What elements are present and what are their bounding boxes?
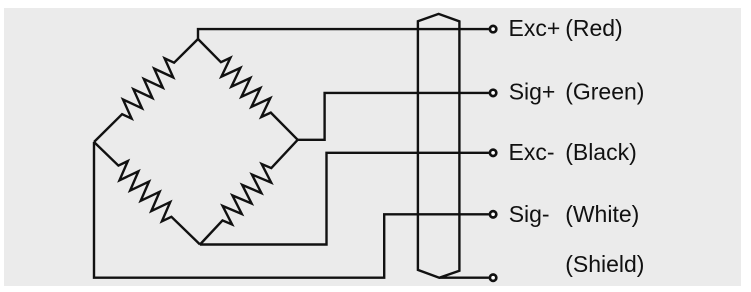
- terminal Exc-: [490, 150, 496, 156]
- wire Exc+ (top bridge node to Exc+ terminal): [198, 29, 489, 39]
- wire shield (cable tip to shield terminal): [439, 277, 489, 279]
- svg-text:(White): (White): [565, 201, 639, 227]
- terminal Exc+: [490, 26, 496, 32]
- resistor (bridge arm, bottom-right): [200, 140, 298, 245]
- cable sheath (shield) outline: [418, 14, 460, 278]
- resistor (bridge arm, top-right): [198, 39, 298, 140]
- svg-text:(Shield): (Shield): [565, 251, 644, 277]
- svg-text:Exc-: Exc-: [509, 139, 555, 165]
- svg-text:(Black): (Black): [565, 139, 637, 165]
- resistor (bridge arm, bottom-left): [94, 142, 200, 245]
- svg-text:Sig+: Sig+: [509, 78, 556, 104]
- terminal shield: [490, 275, 496, 281]
- terminal Sig+: [490, 90, 496, 96]
- wire Sig+ (right bridge node to Sig+ terminal): [298, 93, 489, 140]
- terminal Sig-: [490, 211, 496, 217]
- svg-text:(Red): (Red): [565, 15, 623, 41]
- svg-text:Sig-: Sig-: [509, 201, 550, 227]
- svg-text:(Green): (Green): [565, 78, 644, 104]
- resistor (bridge arm, top-left): [94, 39, 198, 142]
- wire Exc- (bottom bridge node to Exc- terminal): [200, 153, 489, 245]
- svg-text:Exc+: Exc+: [509, 15, 561, 41]
- wire Sig- (left bridge node down, along bottom, up to Sig- terminal): [94, 142, 489, 278]
